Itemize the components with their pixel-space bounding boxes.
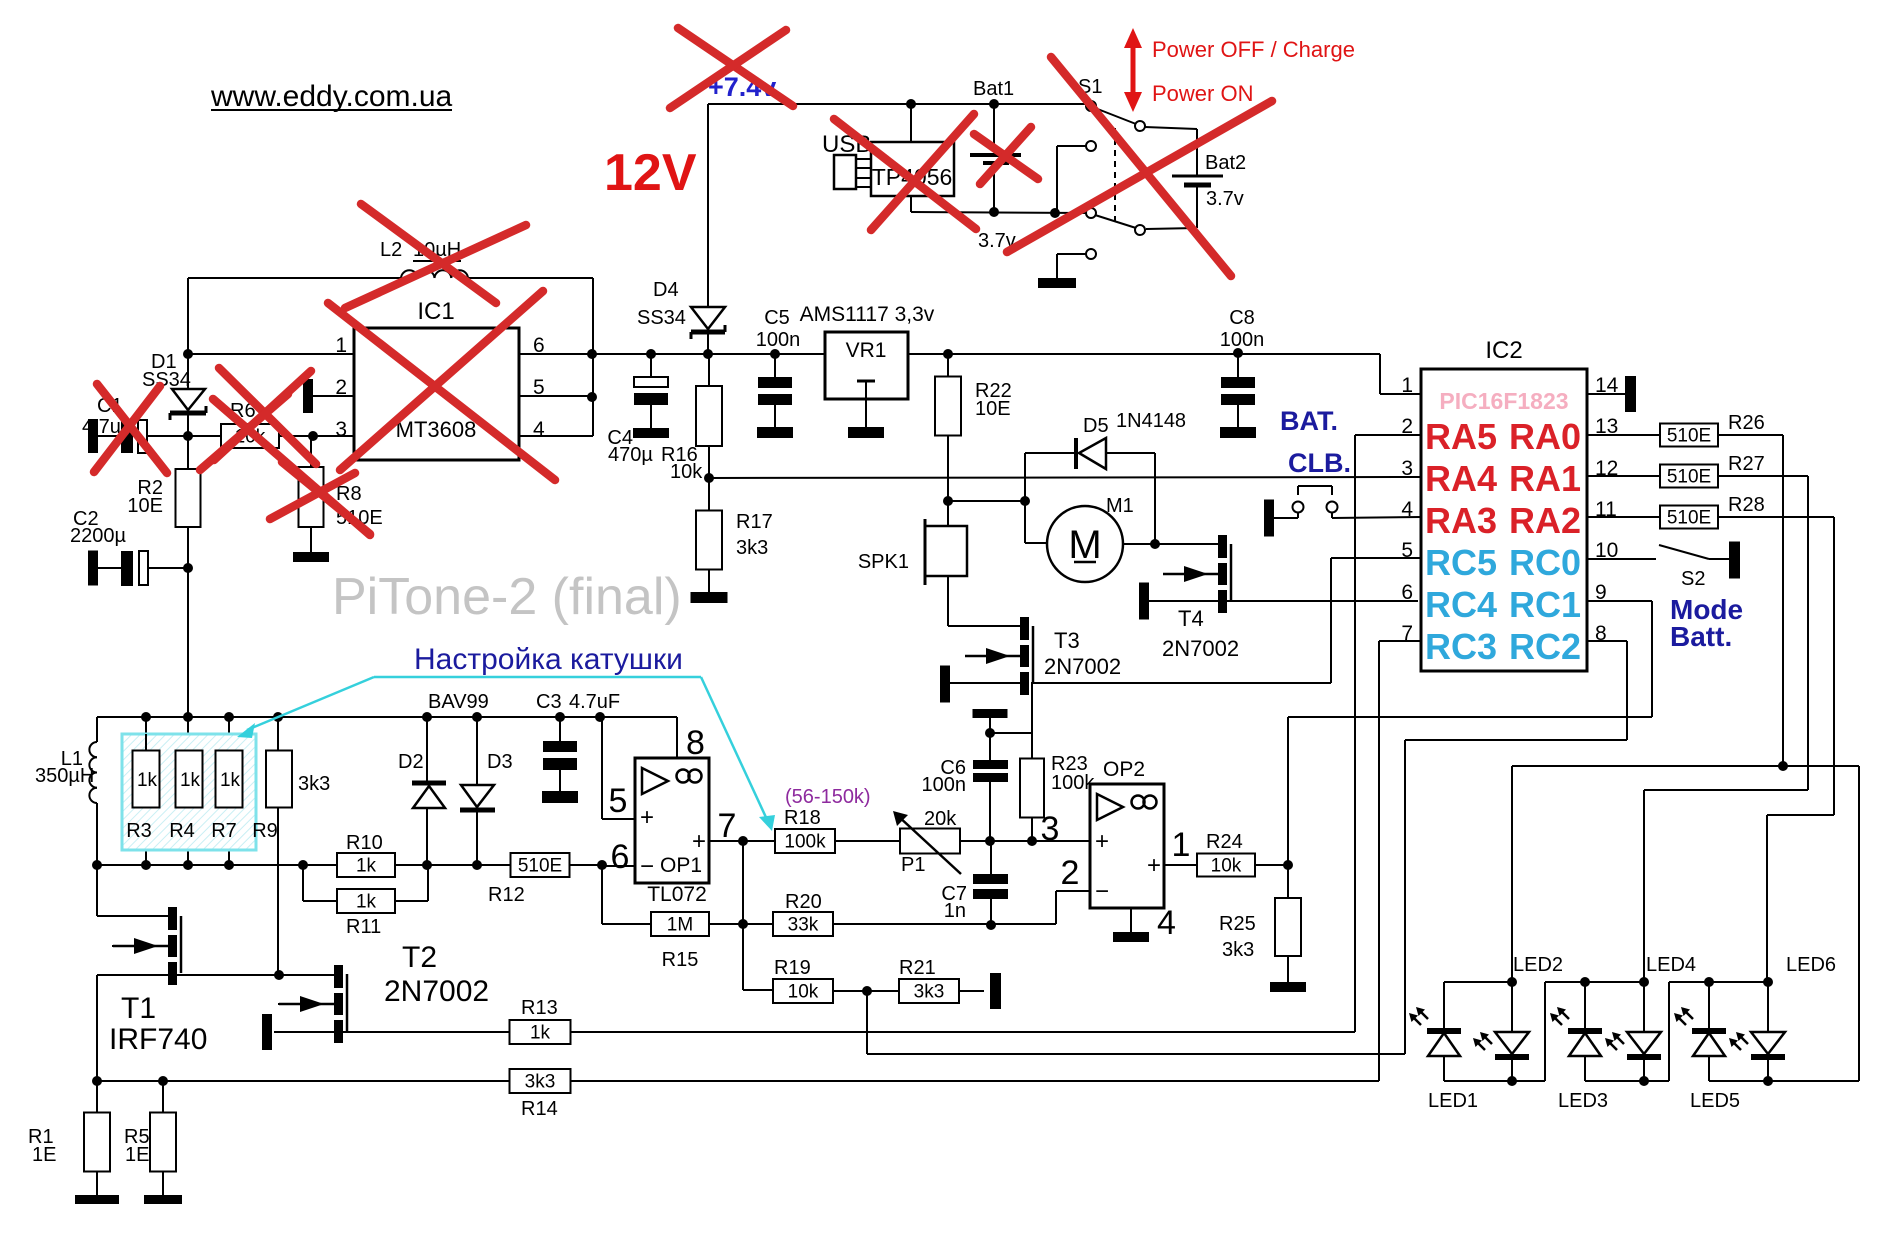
red cross-out stroke bbox=[219, 368, 316, 464]
svg-text:+: + bbox=[1147, 852, 1161, 879]
junction bbox=[703, 349, 713, 359]
svg-text:R19: R19 bbox=[774, 957, 811, 979]
junction bbox=[274, 970, 284, 980]
wire bbox=[1024, 453, 1026, 543]
junction bbox=[985, 836, 995, 846]
junction bbox=[943, 349, 953, 359]
wire bbox=[948, 625, 1020, 627]
svg-text:8: 8 bbox=[686, 724, 705, 762]
wire bbox=[602, 923, 651, 925]
LED4 bbox=[1627, 1032, 1661, 1054]
wire bbox=[1095, 108, 1136, 124]
wire bbox=[274, 1031, 510, 1033]
svg-text:7: 7 bbox=[1401, 622, 1413, 645]
resistor R8 510E bbox=[299, 467, 324, 527]
wire bbox=[602, 865, 635, 867]
wire bbox=[1512, 765, 1859, 767]
wire bbox=[187, 527, 189, 717]
svg-text:R24: R24 bbox=[1206, 831, 1243, 853]
svg-text:T4: T4 bbox=[1178, 606, 1204, 631]
resistor R17 3k3 bbox=[696, 511, 722, 570]
wire bbox=[112, 945, 168, 947]
red cross-out stroke bbox=[328, 303, 555, 480]
svg-text:2: 2 bbox=[1401, 415, 1413, 438]
wire bbox=[468, 277, 593, 279]
resistor R9 3k3 bbox=[266, 751, 292, 808]
svg-text:1E: 1E bbox=[125, 1144, 149, 1166]
battery Bat2 3.7v bbox=[1172, 175, 1223, 178]
wire bbox=[1287, 865, 1289, 898]
wire bbox=[774, 354, 776, 377]
ground T3 source bbox=[940, 666, 950, 703]
wire bbox=[1626, 641, 1628, 740]
wire bbox=[1833, 517, 1835, 815]
wire bbox=[96, 975, 98, 1081]
red cross-out stroke bbox=[974, 134, 1038, 179]
wire bbox=[1146, 228, 1197, 229]
wire bbox=[1196, 186, 1198, 228]
junction bbox=[595, 712, 605, 722]
red cross-out stroke bbox=[270, 473, 355, 519]
resistor R10 1k bbox=[337, 853, 395, 877]
junction bbox=[308, 431, 318, 441]
wire bbox=[1584, 1056, 1586, 1081]
svg-text:Bat1: Bat1 bbox=[973, 78, 1014, 100]
wire bbox=[1443, 1056, 1445, 1081]
charger TP4056 bbox=[871, 142, 954, 196]
red cross-out stroke bbox=[282, 462, 370, 534]
svg-text:100n: 100n bbox=[756, 329, 801, 351]
svg-text:1k: 1k bbox=[180, 770, 201, 791]
wire bbox=[650, 354, 652, 377]
junction bbox=[1050, 208, 1060, 218]
junction bbox=[1639, 977, 1649, 987]
svg-text:20k: 20k bbox=[924, 808, 957, 830]
coil L1 350uH bbox=[89, 742, 97, 757]
wire bbox=[1355, 434, 1421, 436]
junction bbox=[273, 712, 283, 722]
IC1 MT3608 bbox=[354, 328, 519, 460]
svg-text:www.eddy.com.ua: www.eddy.com.ua bbox=[210, 80, 453, 113]
junction bbox=[472, 860, 482, 870]
svg-text:IRF740: IRF740 bbox=[109, 1023, 207, 1056]
wire bbox=[910, 104, 912, 142]
capacitor Bat1 bbox=[970, 153, 1021, 157]
svg-text:LED2: LED2 bbox=[1513, 954, 1563, 976]
wire bbox=[708, 446, 710, 511]
wire bbox=[1767, 1057, 1769, 1081]
wire bbox=[1587, 600, 1652, 602]
wire bbox=[1287, 956, 1289, 982]
motor M1 bbox=[1047, 506, 1123, 582]
wire bbox=[866, 991, 868, 1054]
svg-text:TL072: TL072 bbox=[647, 883, 707, 906]
transistor T4 2N7002 bbox=[1218, 535, 1227, 558]
junction bbox=[738, 919, 748, 929]
wire bbox=[187, 717, 189, 751]
svg-text:R11: R11 bbox=[346, 916, 381, 938]
svg-text:T2: T2 bbox=[402, 941, 437, 974]
svg-text:OP2: OP2 bbox=[1103, 758, 1145, 781]
wire bbox=[1025, 542, 1047, 544]
wire bbox=[1056, 254, 1058, 278]
wire bbox=[97, 716, 677, 718]
switch S1 bbox=[1086, 101, 1096, 111]
wire bbox=[1297, 512, 1299, 518]
svg-text:IC2: IC2 bbox=[1485, 337, 1522, 364]
svg-text:100n: 100n bbox=[922, 774, 967, 796]
resistor R15 1M bbox=[651, 912, 709, 936]
wire bbox=[856, 167, 871, 169]
wire bbox=[709, 923, 743, 925]
wire bbox=[1587, 558, 1656, 560]
ground C5 bbox=[757, 427, 793, 438]
wire bbox=[774, 404, 776, 427]
svg-text:Power OFF / Charge: Power OFF / Charge bbox=[1152, 37, 1355, 62]
svg-text:VR1: VR1 bbox=[846, 339, 887, 362]
speaker SPK1 bbox=[925, 526, 967, 576]
wire bbox=[1544, 982, 1546, 1081]
wire bbox=[1380, 393, 1421, 395]
diode D5 1N4148 bbox=[1074, 438, 1078, 469]
wire bbox=[1443, 982, 1445, 1029]
svg-text:470µ: 470µ bbox=[608, 444, 653, 466]
wire bbox=[948, 500, 1025, 502]
svg-text:3k3: 3k3 bbox=[1222, 939, 1254, 961]
wire bbox=[571, 1080, 1379, 1082]
wire bbox=[1709, 1080, 1859, 1082]
wire bbox=[742, 841, 744, 990]
wire bbox=[743, 989, 773, 991]
junction bbox=[1778, 761, 1788, 771]
wire bbox=[602, 818, 635, 820]
wire bbox=[1123, 543, 1155, 545]
svg-text:1k: 1k bbox=[530, 1023, 551, 1044]
wire bbox=[910, 196, 912, 212]
capacitor C8 100n bbox=[1237, 353, 1239, 377]
resistor R26 510E bbox=[1660, 424, 1718, 447]
wire bbox=[865, 399, 867, 427]
junction bbox=[555, 712, 565, 722]
svg-text:11: 11 bbox=[1595, 498, 1617, 521]
wire bbox=[1718, 434, 1783, 436]
wire bbox=[1643, 1057, 1645, 1081]
diode D1 SS34 bbox=[172, 389, 205, 410]
svg-text:1: 1 bbox=[1401, 374, 1413, 397]
LED1 bbox=[1427, 1028, 1461, 1034]
ground near C6 bbox=[973, 709, 1008, 718]
wire bbox=[1287, 717, 1289, 865]
ground R5 bbox=[144, 1195, 182, 1204]
resistor R3 1k bbox=[145, 734, 147, 751]
junction bbox=[989, 207, 999, 217]
svg-text:Настройка катушки: Настройка катушки bbox=[414, 643, 683, 676]
junction bbox=[1639, 1076, 1649, 1086]
wire bbox=[97, 974, 334, 976]
wire bbox=[1444, 981, 1512, 983]
svg-text:2: 2 bbox=[1061, 854, 1080, 892]
svg-text:10k: 10k bbox=[788, 982, 819, 1003]
ground IC2 pin14 bbox=[1625, 376, 1636, 412]
op-amp OP1 TL072 bbox=[635, 758, 709, 883]
wire bbox=[1025, 452, 1074, 454]
wire bbox=[477, 864, 510, 866]
wire bbox=[1031, 682, 1331, 684]
svg-text:D5: D5 bbox=[1083, 415, 1109, 437]
wire bbox=[709, 477, 1421, 478]
resistor R2 10E bbox=[176, 469, 201, 527]
wire bbox=[993, 167, 995, 212]
junction bbox=[1507, 977, 1517, 987]
svg-text:2N7002: 2N7002 bbox=[384, 975, 489, 1008]
red cross-out stroke bbox=[1051, 57, 1231, 276]
wire bbox=[1331, 512, 1333, 518]
wire bbox=[1584, 982, 1586, 1029]
wire bbox=[302, 865, 304, 901]
ground IC1 pin2 bbox=[303, 379, 313, 413]
resistor R24 10k bbox=[1197, 854, 1255, 877]
capacitor C1 4.7uF bbox=[88, 419, 98, 453]
wire bbox=[959, 990, 984, 992]
junction bbox=[1233, 348, 1243, 358]
wire bbox=[1057, 253, 1086, 255]
svg-text:IC1: IC1 bbox=[417, 298, 454, 325]
wire bbox=[559, 717, 561, 741]
svg-text:100n: 100n bbox=[1220, 329, 1265, 351]
wire bbox=[313, 395, 354, 397]
wire bbox=[1154, 453, 1156, 544]
wire bbox=[395, 900, 428, 902]
junction bbox=[224, 712, 234, 722]
wire bbox=[856, 158, 871, 160]
wire bbox=[989, 782, 991, 841]
wire bbox=[1057, 145, 1086, 147]
svg-text:R9: R9 bbox=[252, 820, 278, 842]
svg-text:RA0: RA0 bbox=[1509, 416, 1581, 457]
svg-text:3k3: 3k3 bbox=[298, 773, 330, 795]
svg-text:RA3: RA3 bbox=[1425, 500, 1497, 541]
junction bbox=[1763, 977, 1773, 987]
wire bbox=[947, 354, 949, 377]
svg-text:6: 6 bbox=[1401, 581, 1413, 604]
wire bbox=[559, 769, 561, 791]
svg-text:M: M bbox=[1068, 523, 1101, 567]
resistor R6 10k bbox=[221, 424, 279, 448]
wire bbox=[1056, 890, 1090, 892]
red cross-out stroke bbox=[213, 399, 370, 535]
junction bbox=[183, 349, 193, 359]
resistor R25 3k3 bbox=[1275, 898, 1301, 956]
junction bbox=[183, 563, 193, 573]
wire bbox=[1511, 1057, 1513, 1081]
capacitor C2 2200u bbox=[88, 551, 98, 586]
wire bbox=[97, 1080, 1379, 1082]
wire bbox=[1444, 1080, 1545, 1082]
svg-text:LED4: LED4 bbox=[1646, 954, 1696, 976]
wire bbox=[426, 717, 428, 781]
wire bbox=[1379, 354, 1381, 394]
svg-text:RC5: RC5 bbox=[1425, 542, 1497, 583]
svg-text:1: 1 bbox=[335, 334, 347, 357]
svg-text:510E: 510E bbox=[1667, 508, 1711, 529]
wire bbox=[856, 186, 871, 188]
junction bbox=[1763, 1076, 1773, 1086]
svg-text:RC4: RC4 bbox=[1425, 584, 1497, 625]
wire bbox=[1767, 982, 1769, 1032]
wire bbox=[1331, 486, 1333, 495]
wire bbox=[519, 435, 593, 437]
svg-text:BAT.: BAT. bbox=[1280, 406, 1338, 436]
diode D4 SS34 bbox=[691, 307, 725, 329]
resistor R20 33k bbox=[773, 912, 833, 936]
wire bbox=[1718, 516, 1834, 518]
svg-text:SS34: SS34 bbox=[637, 307, 686, 329]
wire bbox=[947, 501, 949, 526]
svg-text:R4: R4 bbox=[169, 820, 195, 842]
junction bbox=[646, 349, 656, 359]
regulator VR1 AMS1117 bbox=[825, 332, 908, 399]
svg-text:3: 3 bbox=[1401, 457, 1413, 480]
wire bbox=[1055, 891, 1057, 924]
red cross-out stroke bbox=[834, 119, 976, 229]
junction bbox=[985, 728, 995, 738]
wire bbox=[1651, 601, 1653, 717]
wire bbox=[1511, 982, 1513, 1032]
svg-text:510E: 510E bbox=[1667, 426, 1711, 447]
wire bbox=[476, 812, 478, 865]
transistor T1 IRF740 bbox=[168, 907, 177, 930]
transistor T2 2N7002 bbox=[334, 965, 343, 988]
IC2 PIC16F1823 bbox=[1421, 369, 1587, 671]
ground C4 bbox=[633, 428, 669, 438]
svg-text:R18: R18 bbox=[784, 807, 821, 829]
red cross-out stroke bbox=[340, 291, 543, 470]
wire bbox=[187, 808, 189, 865]
svg-text:C5: C5 bbox=[764, 307, 790, 329]
junction bbox=[158, 1076, 168, 1086]
potentiometer P1 20k bbox=[900, 829, 960, 854]
svg-text:RC0: RC0 bbox=[1509, 542, 1581, 583]
svg-text:510E: 510E bbox=[518, 856, 562, 877]
capacitor C7 1n bbox=[973, 874, 1008, 884]
svg-text:RC1: RC1 bbox=[1509, 584, 1581, 625]
red cross-out stroke bbox=[871, 114, 974, 230]
transistor T3 2N7002 bbox=[1020, 617, 1029, 640]
svg-text:2: 2 bbox=[335, 376, 347, 399]
junction bbox=[1027, 836, 1037, 846]
svg-text:CLB.: CLB. bbox=[1288, 448, 1351, 478]
svg-text:3.7v: 3.7v bbox=[1206, 188, 1244, 210]
wire bbox=[96, 1081, 98, 1113]
wire bbox=[1331, 557, 1421, 559]
resistor R5 1E bbox=[150, 1113, 176, 1172]
svg-text:SS34: SS34 bbox=[142, 369, 191, 391]
wire bbox=[1330, 558, 1332, 683]
svg-text:LED5: LED5 bbox=[1690, 1090, 1740, 1112]
svg-text:T1: T1 bbox=[121, 992, 156, 1025]
wire bbox=[833, 990, 899, 992]
svg-text:S2: S2 bbox=[1681, 568, 1705, 590]
junction bbox=[422, 860, 432, 870]
wire bbox=[187, 354, 189, 469]
svg-text:M1: M1 bbox=[1106, 495, 1134, 517]
svg-text:D2: D2 bbox=[398, 751, 424, 773]
svg-text:R12: R12 bbox=[488, 884, 525, 906]
svg-text:8: 8 bbox=[1595, 622, 1607, 645]
wire bbox=[1807, 476, 1809, 790]
wire bbox=[96, 864, 602, 866]
wire bbox=[707, 104, 709, 307]
junction bbox=[862, 986, 872, 996]
capacitor C3 4.7uF bbox=[543, 741, 577, 752]
ground OP2 pin4 bbox=[1113, 932, 1149, 942]
resistor R19 10k bbox=[773, 979, 833, 1003]
wire bbox=[960, 840, 1090, 842]
red cross-out stroke bbox=[345, 225, 526, 308]
wire bbox=[569, 864, 602, 866]
wire bbox=[162, 1172, 164, 1195]
svg-text:+: + bbox=[640, 804, 654, 831]
svg-text:1n: 1n bbox=[944, 900, 966, 922]
svg-text:RA4: RA4 bbox=[1425, 458, 1497, 499]
svg-text:AMS1117 3,3v: AMS1117 3,3v bbox=[800, 303, 935, 326]
wire bbox=[519, 395, 593, 397]
red cross-out stroke bbox=[670, 30, 786, 108]
svg-text:LED1: LED1 bbox=[1428, 1090, 1478, 1112]
wire bbox=[676, 717, 678, 758]
junction bbox=[92, 860, 102, 870]
wire bbox=[709, 840, 775, 842]
LED2 bbox=[1495, 1032, 1529, 1054]
wire bbox=[833, 923, 1056, 925]
junction bbox=[906, 99, 916, 109]
wire bbox=[310, 436, 312, 467]
svg-text:R7: R7 bbox=[211, 820, 237, 842]
svg-text:2200µ: 2200µ bbox=[70, 525, 126, 547]
capacitor C4 470u bbox=[634, 377, 668, 387]
wire bbox=[1031, 683, 1033, 759]
wire bbox=[1332, 517, 1421, 518]
svg-text:2N7002: 2N7002 bbox=[1044, 654, 1121, 679]
wire bbox=[1255, 864, 1288, 866]
junction bbox=[92, 1076, 102, 1086]
capacitor C5 100n bbox=[758, 377, 792, 388]
wire bbox=[1718, 475, 1808, 477]
cyan callout bbox=[701, 677, 770, 826]
wire bbox=[145, 808, 147, 865]
wire bbox=[1378, 641, 1380, 1081]
wire bbox=[96, 1172, 98, 1195]
junction bbox=[986, 920, 996, 930]
svg-text:3k3: 3k3 bbox=[914, 982, 945, 1003]
wire bbox=[147, 435, 354, 437]
resistor R7 1k bbox=[216, 751, 243, 808]
svg-text:−: − bbox=[1095, 878, 1109, 905]
wire bbox=[947, 576, 949, 626]
svg-text:RC2: RC2 bbox=[1509, 626, 1581, 667]
wire bbox=[147, 435, 188, 437]
svg-text:3k3: 3k3 bbox=[736, 537, 768, 559]
svg-text:R25: R25 bbox=[1219, 913, 1256, 935]
wire bbox=[1511, 766, 1513, 982]
red cross-out stroke bbox=[980, 127, 1031, 184]
wire bbox=[1766, 815, 1768, 982]
wire bbox=[310, 527, 312, 552]
wire bbox=[1587, 516, 1660, 518]
wire bbox=[1196, 129, 1198, 175]
svg-text:3: 3 bbox=[1041, 810, 1060, 848]
wire bbox=[1659, 545, 1709, 559]
